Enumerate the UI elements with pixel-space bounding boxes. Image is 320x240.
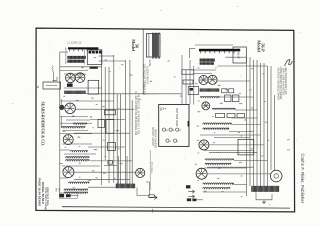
svg-text:GANG: GANG (148, 60, 151, 67)
svg-text:OSC PADDER TRIMMER ADJ: OSC PADDER TRIMMER ADJ (143, 64, 146, 95)
svg-text:UNDER CHASSIS: UNDER CHASSIS (153, 129, 156, 148)
svg-text:R6 2MEG C11 .02 R9 500 C14 .1: R6 2MEG C11 .02 R9 500 C14 .1 R11 (137, 94, 140, 135)
svg-text:LINE VOLTAGE 115 V. AC: LINE VOLTAGE 115 V. AC (284, 67, 287, 95)
svg-text:W: W (36, 86, 40, 89)
svg-text:Alignment Data: Alignment Data (46, 187, 50, 206)
svg-text:ALIGN AT 460 KC: ALIGN AT 460 KC (145, 66, 148, 85)
svg-text:[O+: [O+ (160, 107, 166, 111)
svg-text:SOCKET LAYOUT: SOCKET LAYOUT (151, 127, 154, 147)
svg-text:L1 C1 R1 C2: L1 C1 R1 C2 (68, 41, 82, 44)
svg-text:©John F. Rider, Publisher: ©John F. Rider, Publisher (300, 154, 305, 204)
svg-text:ANT GND CHAS: ANT GND CHAS (64, 48, 67, 65)
svg-text:IF 456 KC: IF 456 KC (237, 49, 240, 60)
svg-text:BOTTOM VIEW: BOTTOM VIEW (175, 109, 178, 127)
svg-text:FROM SOCKET TO CHASSIS: FROM SOCKET TO CHASSIS (279, 67, 282, 100)
svg-text:C7 .1MF R4 50000 C9 .05 R6 2ME: C7 .1MF R4 50000 C9 .05 R6 2MEG C12 (134, 91, 137, 136)
svg-text:am: am (55, 188, 58, 191)
svg-text:VOLTAGE READINGS TAKEN: VOLTAGE READINGS TAKEN (276, 68, 279, 101)
svg-text:56-P: 56-P (261, 43, 266, 52)
svg-text:SEARS-ROEBUCK & CO.: SEARS-ROEBUCK & CO. (41, 102, 45, 146)
